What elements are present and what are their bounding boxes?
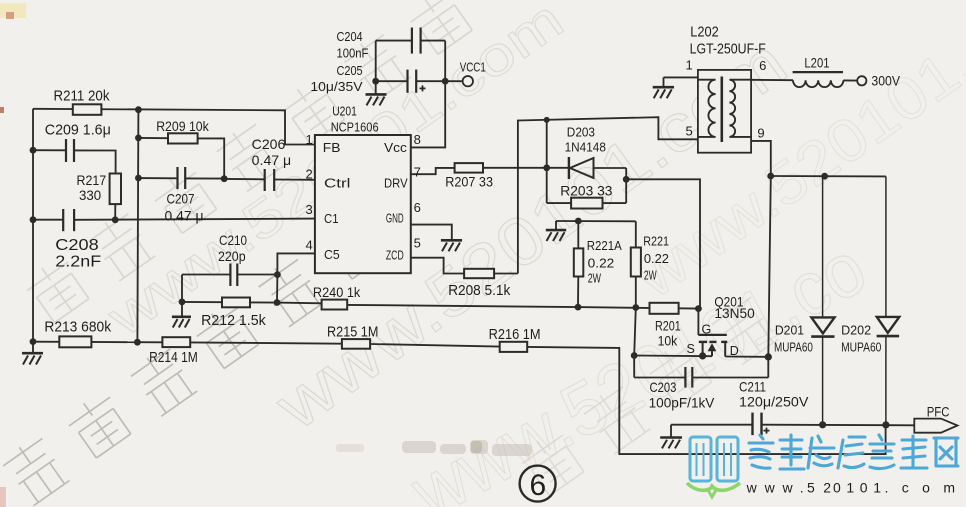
node: D201 top [821,173,828,180]
wire: gate feed down to Q201 gate [626,179,700,308]
svg-text:R214 1M: R214 1M [149,349,198,366]
wire: drain [725,356,768,358]
svg-text:10k: 10k [658,333,679,349]
svg-text:DRV: DRV [384,175,408,190]
node: R207 / D203 / aux riser [543,164,550,171]
svg-text:C207: C207 [167,191,195,207]
wire: pin 8 Vcc riser [411,41,445,148]
node: C208 left [30,216,37,223]
svg-text:R216 1M: R216 1M [489,326,541,343]
svg-text:120μ/250V: 120μ/250V [739,394,809,410]
wire: output sense line to PFC node [527,347,885,454]
node: rail2 bottom / R214 junction [134,339,141,346]
svg-text:FB: FB [323,140,341,155]
svg-text:PFC: PFC [927,404,950,420]
svg-text:100pF/1kV: 100pF/1kV [649,395,715,411]
ground: C204/C205 [366,81,387,105]
wire: DRV (pin 7) to R207 [411,168,455,174]
svg-text:220p: 220p [218,248,246,264]
wire: left rail [32,109,34,342]
resistor R214 [137,337,342,347]
svg-text:D202: D202 [841,323,871,338]
svg-text:1: 1 [686,58,693,73]
resistor R240 [277,300,577,310]
svg-text:R201: R201 [655,318,681,334]
node: R221 bottom [632,304,639,311]
svg-text:R207 33: R207 33 [445,174,493,190]
svg-text:C206: C206 [252,136,286,152]
terminal PFC arrow [914,419,957,433]
ground: IC pin 6 [441,240,462,251]
capacitor C206 on Ctrl (pin 2) line [224,169,315,191]
svg-text:2W: 2W [644,268,657,283]
svg-text:G: G [702,323,712,337]
svg-text:S: S [687,342,695,356]
logo book green base [687,483,740,490]
svg-text:5: 5 [686,124,693,139]
svg-text:R213 680k: R213 680k [44,319,111,336]
svg-text:300V: 300V [871,73,900,89]
resistor R217 [110,174,121,220]
node: C210 right / pin4 [274,271,281,278]
node: aux line junction [544,117,550,123]
node: D201 bottom [819,421,826,428]
svg-text:2W: 2W [588,271,602,286]
wire: node up to aux winding line [546,120,548,168]
ground: sense resistors [546,221,566,241]
node: gate branch [623,176,630,183]
ground: C211 [660,425,682,449]
logo book icon [690,437,738,481]
ground: L202 pin 1 [653,77,674,98]
capacitor C208 and wire to pin 3 (C1) [33,209,315,231]
wire: C210 left down to R212 left [181,275,183,302]
svg-text:D201: D201 [775,323,804,338]
node: C207 / R209 / C206 junction [221,175,228,182]
capacitor C207 [138,167,224,189]
wire: C5 (pin 4) to C210 node [277,253,315,274]
svg-text:330: 330 [79,187,101,203]
resistor R208 [464,269,518,278]
wire: feedback rail (rail2) [137,110,138,343]
wire: aux winding line (R208 riser to L202 pin 5) [518,117,698,273]
resistor R201 [650,303,679,314]
wire: source rail down to C203 [634,308,636,378]
resistor R221 [631,248,641,308]
svg-text:4: 4 [306,238,313,253]
node: R221A top [575,218,582,225]
svg-text:6: 6 [414,200,421,215]
svg-text:C210: C210 [219,232,247,248]
svg-text:ZCD: ZCD [386,247,404,262]
transistor Q201 13N50 [698,309,727,357]
wire: source [634,355,712,358]
svg-text:C5: C5 [324,247,340,262]
wire: C204 left leg [375,41,377,82]
wire: pin4 node down to R212 node [276,275,278,303]
resistor R207 [455,163,547,173]
svg-text:R221: R221 [643,234,669,249]
svg-text:D: D [730,344,739,358]
svg-text:LGT-250UF-F: LGT-250UF-F [690,41,766,58]
node: C205 left [372,78,379,85]
terminal 300V [843,76,866,85]
svg-text:D203: D203 [567,125,595,140]
watermark CJK diagonal bottom-center [516,292,780,500]
node: R213 left / rail ground [30,338,37,345]
capacitor C204 [376,28,446,54]
watermark CJK diagonal top-left [21,0,477,327]
svg-text:2: 2 [306,167,313,182]
wire: L202 pin 9 / drain rail [751,141,771,378]
scan artifact: pink block bottom-left edge [0,487,6,507]
wire: top divider rail to FB (pin 1) [33,109,315,145]
svg-text:C204: C204 [337,29,363,44]
ground: R212 / C210 node [172,302,191,328]
svg-text:VCC1: VCC1 [460,60,486,75]
resistor R211 [73,104,102,115]
inductor L201 [793,72,844,87]
svg-text:0.22: 0.22 [588,256,615,271]
svg-text:C203: C203 [650,379,677,395]
svg-text:U201: U201 [332,104,357,119]
node: R212 right [274,299,281,306]
svg-text:R215 1M: R215 1M [327,324,378,341]
node: D202 bottom / PFC output [882,421,889,428]
logo CJK brand characters [749,435,958,469]
capacitor C210 [182,264,277,287]
node: drain / pin9 rail [765,353,772,360]
node: C209 left [30,147,37,154]
node: rail2 / R209 left [135,135,142,142]
resistor R216 [500,342,528,352]
svg-text:0.47 μ: 0.47 μ [252,152,292,168]
diode D201 MUPA60 [811,176,834,425]
svg-text:MUPA60: MUPA60 [774,340,813,355]
terminal VCC1 [445,76,473,86]
svg-text:6: 6 [530,469,547,502]
svg-text:C211: C211 [739,379,766,395]
node: C205 right / VCC1 [442,78,449,85]
ground: left rail [22,342,43,365]
op-amp / controller IC U201 NCP1606 body [315,135,411,273]
svg-text:Ctrl: Ctrl [324,176,351,191]
scan artifact: yellow smear top-left [0,3,26,18]
node: R217 bottom [112,216,119,223]
wire: diode top row [771,175,886,177]
svg-text:1N4148: 1N4148 [565,140,606,155]
node: source / S leg [699,352,706,359]
svg-text:NCP1606: NCP1606 [331,120,379,135]
node: rail2 / C207 left [135,175,142,182]
wire: gate resistor row [578,307,698,309]
svg-text:Vcc: Vcc [384,140,407,155]
resistor R215 [342,339,500,349]
svg-text:10μ/35V: 10μ/35V [310,79,363,94]
svg-text:R212 1.5k: R212 1.5k [201,312,266,329]
svg-text:7: 7 [414,165,421,180]
scan smudges bottom-center [336,440,532,456]
capacitor C209 [33,139,116,174]
resistor R209 [138,133,224,178]
transformer L202 body [698,70,751,153]
resistor R212 [182,298,277,308]
page number 6 circle [520,466,556,502]
svg-text:0.22: 0.22 [644,251,669,266]
svg-text:MUPA60: MUPA60 [841,340,881,355]
svg-text:R209 10k: R209 10k [156,118,209,134]
node: source rail / source wire [631,352,638,359]
watermark CJK diagonal bottom-left [0,209,391,507]
svg-text:L202: L202 [690,24,719,41]
svg-text:13N50: 13N50 [714,305,754,321]
wire: GND (pin 6) [411,225,452,240]
svg-text:9: 9 [757,126,764,141]
svg-text:R240 1k: R240 1k [313,284,361,300]
svg-text:3: 3 [306,202,313,217]
svg-text:0.47 μ: 0.47 μ [165,208,204,224]
node: R212 left [179,299,186,306]
svg-text:8: 8 [414,132,421,147]
diode D202 MUPA60 [877,176,900,425]
svg-text:R221A: R221A [587,238,622,253]
svg-text:C1: C1 [324,211,339,226]
svg-text:R208 5.1k: R208 5.1k [448,282,511,299]
svg-text:R217: R217 [77,172,107,188]
svg-text:1: 1 [306,132,313,147]
wire: L202 pin 6 to L201 [751,79,793,81]
svg-text:5: 5 [414,236,421,251]
resistor R221A [574,248,584,307]
capacitor C211 (polarized) [671,413,914,436]
wire: R221A top stub [577,221,579,248]
svg-text:C205: C205 [337,63,363,78]
svg-text:6: 6 [759,58,766,73]
svg-text:C208: C208 [55,237,99,254]
wire: sense resistor ground row [556,220,636,222]
svg-text:L201: L201 [804,55,829,71]
wire: L202 pin 1 lead [664,76,698,78]
capacitor C205 (polarized) [376,70,446,93]
diode D203 1N4148 [547,157,627,179]
svg-text:GND: GND [386,210,404,225]
node: rail2 top junction [135,106,142,113]
resistor R203 (parallel with D203) [547,168,627,209]
scan artifact: red dash left edge [6,12,14,19]
svg-text:2.2nF: 2.2nF [55,254,101,271]
svg-text:R203 33: R203 33 [560,183,612,199]
resistor R213 [33,336,137,347]
node: R221A bottom [575,304,582,311]
node: gate [695,305,702,312]
wire: R221 top stub [635,221,637,247]
svg-text:C209 1.6μ: C209 1.6μ [45,122,111,139]
svg-text:R211 20k: R211 20k [54,88,110,105]
capacitor C203 [634,367,768,388]
svg-text:100nF: 100nF [337,46,369,61]
node: pin 9 rail / diode row [767,173,774,180]
wire: ZCD (pin 5) to R208 [411,258,464,274]
